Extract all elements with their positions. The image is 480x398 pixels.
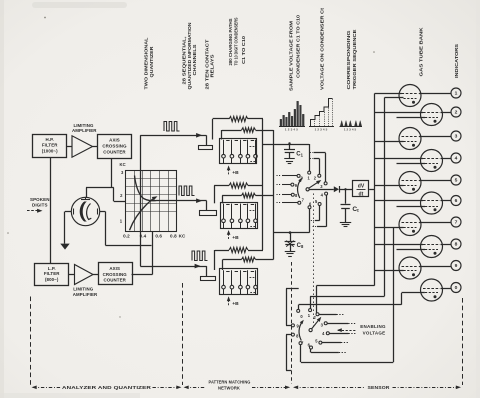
gas tube V5	[399, 172, 421, 194]
svg-text:3: 3	[455, 134, 458, 140]
mechanical link to enabling switch (dashed)	[313, 194, 315, 328]
svg-text:TO 10 DIGIT CONDENSERS: TO 10 DIGIT CONDENSERS	[234, 18, 239, 66]
wire: top channel drive	[140, 135, 206, 137]
svg-text:8: 8	[455, 242, 458, 248]
wire: tube V0 input lead	[402, 292, 425, 294]
contact 4 output stub	[329, 333, 348, 335]
relay block 3: ten-contact box	[220, 269, 258, 295]
label: voltage on condenser Ct	[320, 7, 325, 90]
wire dV/dt to trigger bus	[369, 189, 374, 191]
charging bus A	[262, 119, 264, 250]
charging bus B	[273, 130, 275, 260]
svg-text:C1: C1	[296, 151, 303, 157]
condenser feed lines to contacts 0,9,8,7	[282, 175, 297, 177]
enabling switch contact 1	[309, 309, 312, 312]
enabling switch contact 4	[326, 332, 329, 335]
contact 3 output stub	[327, 323, 348, 325]
wire: microphone top to counter line	[86, 188, 88, 198]
wire: contact 2 stub to C2	[319, 159, 321, 175]
relay block 1: charging resistor upper	[229, 116, 248, 121]
ground (C8)	[285, 251, 296, 253]
contact 2 output stub	[319, 314, 337, 316]
wire: into quantizer graph	[114, 201, 126, 203]
svg-text:+B: +B	[232, 235, 239, 241]
gas tube V2	[421, 104, 443, 126]
label: two dimensional quantizer	[144, 37, 155, 89]
sampling switch contact 1	[308, 171, 311, 174]
indicator lamp 6	[451, 196, 461, 206]
relay block 3: coil leads	[214, 250, 216, 270]
label: corresponding trigger sequence	[346, 30, 357, 90]
indicator lamp 8	[451, 239, 461, 249]
svg-text:+B: +B	[232, 301, 239, 307]
gas tube V3	[399, 128, 421, 150]
sampling switch contact 0	[297, 174, 300, 177]
svg-text:AXIS: AXIS	[109, 266, 120, 271]
wire: tube V5 output	[419, 180, 451, 182]
indicator lamp 1	[451, 88, 461, 98]
svg-text:dt: dt	[359, 192, 364, 198]
svg-text:12345: 12345	[344, 128, 357, 132]
svg-text:TWO DIMENSIONAL: TWO DIMENSIONAL	[144, 37, 149, 89]
svg-text:CROSSING: CROSSING	[102, 144, 127, 149]
trigger bus A	[374, 94, 376, 286]
condenser C1	[288, 142, 290, 144]
L.P. filter (800~) box	[35, 264, 69, 286]
wire: tube 0 feed to contact 0	[299, 304, 402, 306]
wire: bottom channel drive	[140, 266, 206, 268]
relay block 3: charging resistor lower	[242, 257, 256, 262]
label: 280 charging paths to 10 digit condensers	[228, 18, 246, 66]
chart: sample voltage bar chart	[279, 101, 305, 131]
wire: tube V2 input lead	[375, 112, 424, 114]
sampling switch contact 9	[291, 183, 294, 186]
wire: quantizer vertical trunk	[140, 135, 142, 266]
svg-text:C1 TO C10: C1 TO C10	[241, 36, 246, 64]
relay coil bar 1	[199, 146, 213, 150]
wire: contact 4 stub to C4	[326, 195, 328, 227]
indicator lamp 2	[451, 107, 461, 117]
svg-text:7: 7	[455, 220, 458, 226]
ground (microphone)	[60, 244, 69, 250]
svg-text:COUNTER: COUNTER	[103, 150, 126, 155]
relay coil bar 3	[201, 277, 216, 281]
enabling return line (right)	[393, 228, 395, 363]
wire: jog down to quantizer input	[113, 188, 115, 202]
svg-text:INDICATORS: INDICATORS	[454, 44, 459, 78]
svg-text:0.8: 0.8	[170, 234, 177, 239]
wire: bottom drive elbow down	[206, 266, 208, 276]
svg-text:LIMITING: LIMITING	[73, 286, 94, 291]
contact 7 down to enclosure bottom	[300, 345, 302, 363]
graph decay curve	[135, 176, 157, 201]
svg-text:FILTER: FILTER	[44, 271, 60, 276]
ground (C1)	[284, 158, 295, 160]
svg-text:SENSOR: SENSOR	[368, 385, 391, 390]
graph axis labels	[119, 162, 186, 238]
wire: tube V0 output	[441, 288, 452, 290]
H.P. filter (1000~) box	[33, 135, 67, 158]
wire: enabling feed from bus B to contact 1	[310, 296, 384, 298]
wire: middle drive elbow down	[206, 201, 208, 211]
relay block 3: charging resistor upper	[229, 247, 248, 252]
limiting amplifier triangle (bottom)	[75, 265, 94, 285]
svg-text:ENABLING: ENABLING	[360, 324, 386, 329]
enabling switch contact 9	[291, 324, 294, 327]
span label: analyzer and quantizer	[32, 385, 182, 390]
dashed boundary: pattern-matching / sensor divider	[291, 262, 293, 384]
svg-text:RELAYS: RELAYS	[210, 55, 215, 78]
indicator lamp 3	[451, 131, 461, 141]
svg-text:GAS TUBE BANK: GAS TUBE BANK	[419, 27, 424, 77]
gas tube V8	[421, 236, 443, 258]
sampling switch wiper pivot	[306, 188, 309, 191]
svg-text:CROSSING: CROSSING	[103, 272, 128, 277]
wire: enabling feed from bus A to contact 2	[317, 285, 375, 287]
limiting amplifier label (top)	[72, 123, 97, 133]
relay block 2: coil leads	[214, 186, 216, 204]
squarewave glyph (middle channel)	[179, 186, 194, 196]
wire: tube V2 output	[441, 112, 452, 114]
sampling switch contact 7	[298, 201, 301, 204]
sampling switch contact 2	[318, 174, 321, 177]
svg-text:H.P.: H.P.	[46, 137, 54, 142]
svg-text:dV: dV	[358, 184, 365, 190]
svg-text:AMPLIFIER: AMPLIFIER	[73, 292, 98, 297]
svg-text:12345: 12345	[285, 128, 299, 132]
wire: microphone right output	[100, 211, 106, 213]
svg-text:VOLTAGE: VOLTAGE	[363, 330, 386, 335]
diode	[334, 186, 339, 192]
svg-text:AMPLIFIER: AMPLIFIER	[72, 128, 97, 133]
wire: tube V3 output	[419, 136, 451, 138]
sampling switch contact 3	[324, 182, 327, 185]
gas tube V1	[399, 85, 421, 107]
graph rising curve with arrow	[130, 197, 156, 230]
svg-text:280 CHARGING PATHS: 280 CHARGING PATHS	[228, 19, 233, 66]
spoken digits input label	[27, 197, 50, 213]
axis crossing counter box (bottom)	[99, 263, 133, 285]
enabling switch contact 8	[291, 333, 294, 336]
svg-text:4: 4	[455, 156, 458, 162]
sampling switch contact 5	[318, 203, 321, 206]
wire: tube V9 input lead	[375, 270, 404, 272]
svg-text:DIGITS: DIGITS	[32, 203, 48, 208]
svg-text:CHANNELS: CHANNELS	[192, 45, 197, 76]
wire: microphone left to ground	[65, 211, 71, 213]
wire amplifier to counter	[93, 146, 98, 148]
wire: tube V5 input lead	[375, 185, 404, 187]
wire: tube V1 input lead	[375, 93, 402, 95]
svg-text:0.6: 0.6	[155, 234, 162, 239]
wire filter to amplifier	[67, 146, 73, 148]
svg-text:C8: C8	[297, 243, 304, 249]
svg-text:CORRESPONDING: CORRESPONDING	[346, 30, 351, 89]
squarewave glyph (top channel)	[164, 122, 179, 132]
svg-text:1: 1	[455, 91, 458, 97]
relay block 2: ten-contact box	[221, 203, 258, 229]
wire: contact 6 down to C8 rail	[309, 209, 311, 233]
enclosure bottom wire	[301, 362, 393, 364]
dashed boundary: analyzer / pattern-matching divider	[182, 283, 184, 385]
chart: condenser Ct staircase	[309, 99, 334, 132]
trigger bus B	[384, 98, 386, 297]
wire: tube V3 input lead	[375, 141, 404, 143]
indicator lamp 9	[451, 261, 461, 271]
gas tube V0	[421, 279, 443, 301]
enabling switch wiper arm	[312, 319, 320, 329]
sampling switch wiper arm	[309, 182, 319, 189]
contact 5 output stub	[322, 342, 341, 344]
enabling switch contact 3	[324, 322, 327, 325]
svg-text:COUNTER: COUNTER	[103, 278, 126, 283]
sampling switch contact 8	[291, 193, 294, 196]
wire: tube V7 output	[419, 222, 451, 224]
gas tube V9	[399, 257, 421, 279]
wires filter-amp-counter (bottom)	[69, 274, 75, 276]
relay block 2: +B supply	[228, 231, 230, 239]
indicator lamp 4	[451, 153, 461, 163]
svg-text:12345: 12345	[315, 128, 329, 132]
wire: bottom counter output	[132, 274, 153, 276]
svg-text:FILTER: FILTER	[42, 143, 58, 148]
wire: tube V1 output	[419, 93, 451, 95]
relay block 1: charging resistor lower	[242, 128, 256, 133]
microphone internal element	[74, 197, 98, 221]
gas tube V4	[421, 150, 443, 172]
svg-text:L.P.: L.P.	[48, 266, 56, 271]
wire: contact 3 stub to C3	[325, 153, 327, 182]
sampling switch contact 6	[308, 206, 311, 209]
wiper rotation arc (sampling switch)	[298, 180, 301, 199]
wire: input bus between filters	[50, 158, 52, 264]
relay block 1: ten-contact box	[220, 139, 257, 164]
svg-text:KC: KC	[119, 162, 125, 167]
relay block 1: coil leads	[212, 119, 214, 140]
enabling switch contact 0	[297, 309, 300, 312]
rail to condenser C8 and contact 6	[274, 232, 310, 234]
wire: tube V4 input lead	[375, 158, 424, 160]
contact 6 stub down and right	[310, 349, 312, 353]
enabling voltage label with arrow	[337, 324, 386, 335]
svg-text:0: 0	[455, 285, 458, 291]
dV/dt differentiator box	[353, 181, 369, 198]
enabling switch contact 7	[299, 342, 302, 345]
label: sample voltage from condenser C1 to C10	[289, 15, 301, 91]
svg-text:+B: +B	[232, 170, 239, 176]
svg-text:5: 5	[455, 178, 458, 184]
svg-text:9: 9	[455, 263, 458, 269]
wire: tube V8 output	[441, 244, 452, 246]
svg-text:SAMPLE VOLTAGE FROM: SAMPLE VOLTAGE FROM	[289, 21, 294, 91]
wire: counter output down	[111, 159, 113, 188]
relay block 2: charging resistor lower	[242, 193, 256, 198]
wire: tube V6 input lead	[375, 200, 424, 202]
left bracket: contacts 9 and 0	[286, 289, 288, 326]
indicator lamp 0	[451, 283, 461, 293]
enabling switch contact 5	[319, 341, 322, 344]
relay block 1: +B supply	[228, 167, 230, 175]
relay block 2: charging resistor upper	[229, 183, 248, 188]
squarewave glyph (bottom channel)	[192, 251, 207, 261]
enabling switch contact 2	[316, 313, 319, 316]
wire diode to dV/dt	[339, 189, 353, 191]
gas tube V7	[399, 214, 421, 236]
svg-text:ANALYZER AND QUANTIZER: ANALYZER AND QUANTIZER	[62, 385, 152, 390]
span label: sensor	[293, 385, 461, 390]
ground (Ct)	[340, 222, 351, 224]
svg-text:KC: KC	[179, 234, 186, 239]
sampling switch contact 4	[325, 192, 328, 195]
wire: middle channel drive from graph	[157, 200, 207, 202]
svg-text:NETWORK: NETWORK	[218, 386, 241, 391]
label: 28 sequential quantized information channels	[182, 22, 197, 90]
wire: tube V4 output	[441, 158, 452, 160]
svg-text:VOLTAGE ON CONDENSER Ct: VOLTAGE ON CONDENSER Ct	[320, 7, 325, 90]
wire: contact 1 to C1 rail	[309, 144, 311, 171]
dashed boundary: right edge	[462, 298, 464, 385]
wire: tube V7 input lead	[375, 227, 404, 229]
svg-text:PATTERN MATCHING: PATTERN MATCHING	[209, 379, 252, 384]
wire: tube V9 output	[419, 266, 451, 268]
enabling switch wiper pivot	[309, 329, 312, 332]
relay block 3: +B supply	[228, 298, 230, 306]
svg-text:SPOKEN: SPOKEN	[30, 197, 50, 202]
two-dimensional quantizer graph frame	[126, 170, 177, 231]
svg-text:(800~): (800~)	[45, 277, 59, 282]
gas tube V6	[421, 192, 443, 214]
relay coil bar 2	[200, 211, 217, 216]
limiting amplifier label (bottom)	[73, 286, 98, 296]
svg-text:(1000~): (1000~)	[42, 148, 58, 153]
wire: tube V8 input lead	[375, 244, 424, 246]
rail to condenser C1 and contact 1	[263, 144, 309, 146]
label: indicators	[454, 44, 459, 78]
left bracket: contact 8 down to enclosure	[286, 335, 288, 371]
svg-text:TRIGGER SEQUENCE: TRIGGER SEQUENCE	[352, 30, 357, 90]
dashed boundary: left edge	[30, 297, 32, 386]
svg-text:6: 6	[455, 198, 458, 204]
wire: top drive elbow down	[206, 135, 208, 145]
svg-text:2: 2	[455, 110, 458, 116]
wire: tube V6 output	[441, 200, 452, 202]
label: gas tube bank	[419, 27, 424, 77]
condenser C8	[285, 233, 296, 252]
chart: trigger pulse sequence	[340, 121, 363, 132]
svg-text:AXIS: AXIS	[109, 138, 120, 143]
condenser Ct	[341, 189, 351, 222]
axis crossing counter box (top)	[98, 135, 132, 159]
enabling switch contact 6	[310, 346, 313, 349]
wire: horizontal to microphone branch	[86, 187, 114, 189]
label: 28 ten contact relays	[205, 39, 215, 89]
wiper rotation arc (enabling switch)	[299, 322, 302, 341]
span label: pattern matching network	[184, 379, 291, 390]
indicator lamp 7	[451, 217, 461, 227]
svg-text:CONDENSER C1 TO C10: CONDENSER C1 TO C10	[296, 15, 301, 78]
wire: contact 5 stub to C5	[319, 206, 321, 221]
svg-text:QUANTIZER: QUANTIZER	[149, 46, 154, 78]
microphone transmitter circle	[71, 197, 99, 225]
indicator lamp 5	[451, 175, 461, 185]
limiting amplifier triangle (top)	[72, 136, 93, 157]
wire: wiper output to diode	[309, 189, 334, 191]
svg-text:0.2: 0.2	[123, 234, 130, 239]
